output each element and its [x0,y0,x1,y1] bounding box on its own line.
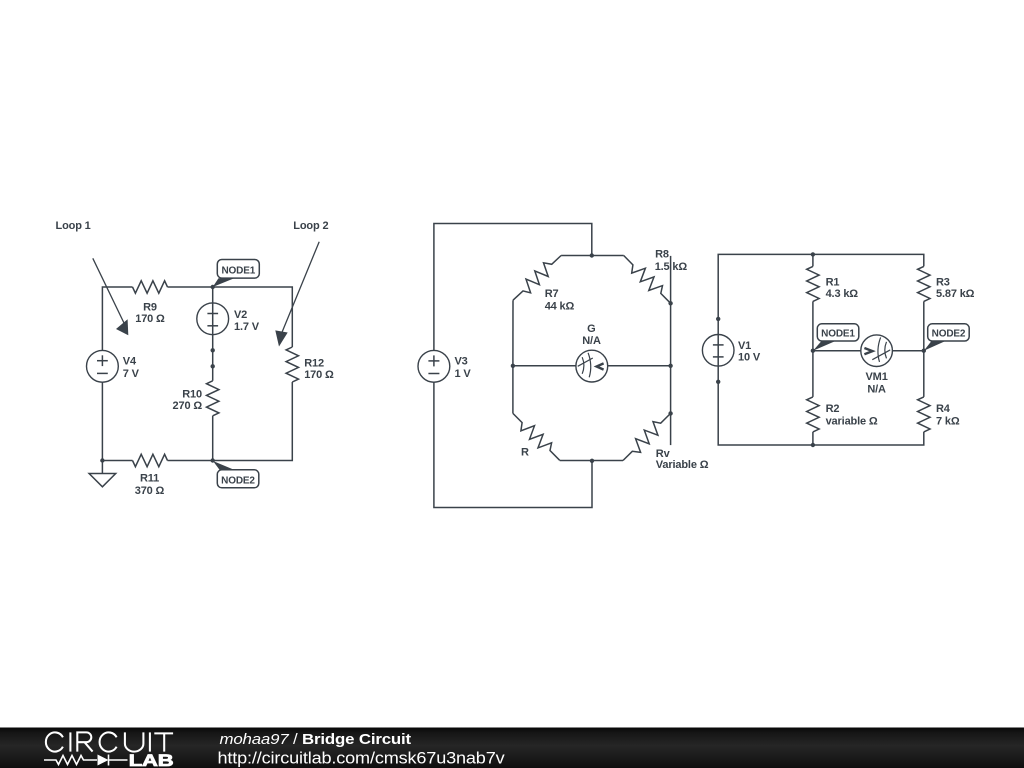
svg-text:1 V: 1 V [455,368,472,380]
svg-text:NODE1: NODE1 [821,329,855,340]
bridge right node [668,364,672,368]
svg-text:V3: V3 [455,356,468,368]
svg-text:Variable Ω: Variable Ω [656,459,709,471]
node NODE2 junction right circuit [922,349,926,353]
bridge top node [590,253,594,257]
resistor Rv [623,413,671,460]
resistor R2 [807,397,819,432]
wire right circuit outer boundary [718,254,924,445]
resistor R8 [624,256,671,304]
CircuitLab logo diode triangle [98,755,109,766]
svg-text:variable Ω: variable Ω [826,416,878,428]
CircuitLab logo resistor-diode glyph [44,755,128,766]
galvanometer G [576,350,608,382]
svg-text:V2: V2 [234,309,247,321]
wire bridge top to R8 [592,255,624,257]
junction ground corner [100,458,104,462]
wire middle branch lower (R10 to NODE2) [212,416,214,461]
wire bottom-left segment [102,460,132,462]
voltage source V1 [702,335,734,367]
node NODE1 junction [211,285,215,289]
wire middle bottom loop [434,382,592,507]
svg-text:R11: R11 [140,473,159,485]
wire left node to G [513,365,576,367]
resistor R4 [918,397,930,432]
svg-text:VM1: VM1 [866,371,888,383]
svg-text:Loop 1: Loop 1 [56,220,91,232]
wire R to bridge bottom [560,460,592,462]
wire R3 to NODE2 [923,301,925,350]
svg-text:10 V: 10 V [738,352,761,364]
wire R7 to left node [512,300,514,366]
svg-text:http://circuitlab.com/cmsk67u3: http://circuitlab.com/cmsk67u3nab7v [218,749,506,768]
junction top middle branch [811,252,815,256]
svg-text:Loop 2: Loop 2 [293,220,328,232]
terminal dot V2 bottom [211,348,215,352]
svg-text:R8: R8 [655,248,669,260]
footer bar [0,728,1024,768]
CircuitLab logo CIRCUIT letters (vector) [46,732,173,751]
svg-text:G: G [587,323,595,335]
svg-text:1.5 kΩ: 1.5 kΩ [655,261,688,273]
svg-text:R4: R4 [936,403,951,415]
svg-text:4.3 kΩ: 4.3 kΩ [826,288,859,300]
svg-text:170 Ω: 170 Ω [135,313,165,325]
node NODE2 junction [211,458,215,462]
loop 1 arrow [93,258,129,335]
wire Rv stub lower [670,413,672,445]
wire top to R1 [812,254,814,266]
resistor R [513,413,560,460]
svg-text:1.7 V: 1.7 V [234,321,260,333]
wire bridge top to R7 [561,255,592,257]
svg-text:NODE2: NODE2 [932,329,966,340]
wire R1 to NODE1 [812,301,814,350]
wire middle top loop [434,224,592,351]
wire NODE2 to R4 [923,351,925,397]
svg-text:44 kΩ: 44 kΩ [545,300,575,312]
wire bottom-right corner [168,382,293,461]
svg-text:Rv: Rv [656,448,671,460]
wire top-right corner [168,287,293,347]
terminal dot V1 bottom [716,380,720,384]
svg-text:270 Ω: 270 Ω [173,400,203,412]
wire bridge bottom to Rv [592,460,623,462]
wire top-left corner [102,287,132,351]
resistor R9 [133,281,168,293]
wire VM1 to NODE2 [892,350,923,352]
wire middle branch upper (through V2) [212,287,214,381]
wire right node to Rv [670,366,672,414]
resistor R12 [286,347,298,382]
voltmeter VM1 [861,335,893,367]
svg-text:LAB: LAB [129,752,174,768]
terminal dot V1 top [716,317,720,321]
svg-text:7 kΩ: 7 kΩ [936,416,960,428]
voltage source V2 [197,303,229,335]
svg-text:7 V: 7 V [123,368,140,380]
svg-text:170 Ω: 170 Ω [304,369,334,381]
svg-text:R12: R12 [304,357,324,369]
terminal dot R10 top [211,364,215,368]
svg-text:N/A: N/A [582,335,601,347]
voltage source V3 [418,350,450,382]
svg-text:R10: R10 [182,389,202,401]
svg-text:V1: V1 [738,340,751,352]
svg-text:R9: R9 [143,301,157,313]
wire left node to R [512,366,514,414]
node NODE1 callout right circuit [813,324,859,351]
bridge left node [511,364,515,368]
node NODE1 junction right circuit [811,349,815,353]
svg-text:NODE2: NODE2 [221,475,255,486]
svg-text:R: R [521,447,529,459]
wire R2 to bottom [812,432,814,445]
node NODE2 callout right circuit [924,324,969,351]
svg-text:mohaa97 / Bridge Circuit: mohaa97 / Bridge Circuit [220,731,412,748]
wire left lower and ground lead [101,382,103,473]
svg-text:NODE1: NODE1 [221,265,255,276]
svg-text:N/A: N/A [867,384,886,396]
wire R8 to right node [670,303,672,366]
svg-text:R7: R7 [545,288,559,300]
voltage source V4 [87,350,119,382]
Rv upper terminal junction [668,411,672,415]
svg-text:5.87 kΩ: 5.87 kΩ [936,288,975,300]
R8 lower terminal junction [668,301,672,305]
resistor R3 [918,266,930,301]
resistor R10 [207,381,219,416]
resistor R11 [133,454,168,466]
node NODE1 callout [213,260,260,288]
resistor R7 [513,256,561,301]
wire NODE1 to VM1 [813,350,861,352]
node NODE2 callout [213,461,259,488]
ground symbol [89,474,116,487]
resistor R1 [807,266,819,301]
svg-text:V4: V4 [123,355,137,367]
bridge bottom node [590,459,594,463]
loop 2 arrow [275,242,319,347]
wire R8 stub upper [670,256,672,303]
wire NODE1 to R2 [812,351,814,397]
junction bottom middle branch [811,443,815,447]
svg-text:370 Ω: 370 Ω [135,485,165,497]
svg-text:R1: R1 [826,277,840,289]
wire G to right node [608,365,671,367]
svg-text:R2: R2 [826,403,840,415]
svg-text:R3: R3 [936,277,950,289]
